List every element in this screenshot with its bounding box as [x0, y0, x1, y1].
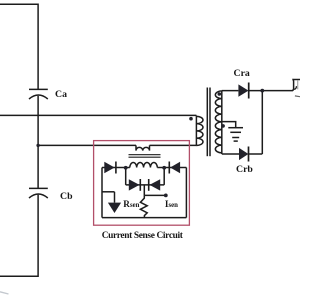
- svg-text:Current Sense Circuit: Current Sense Circuit: [102, 231, 184, 241]
- svg-text:Cb: Cb: [60, 191, 73, 202]
- svg-text:Rsen: Rsen: [123, 199, 139, 209]
- svg-text:Isen: Isen: [165, 199, 178, 209]
- svg-text:Ca: Ca: [55, 89, 67, 100]
- svg-text:Crb: Crb: [236, 164, 253, 175]
- svg-text:Cra: Cra: [234, 68, 250, 79]
